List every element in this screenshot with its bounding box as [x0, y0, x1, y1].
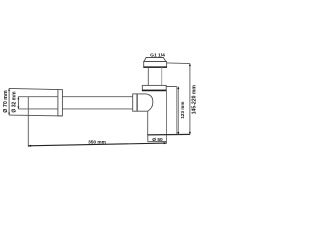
tailpiece trapezoid — [144, 58, 166, 62]
svg-text:Ø 70 mm: Ø 70 mm — [3, 90, 9, 113]
inlet pipe — [147, 67, 149, 85]
O70 dimension arrows — [8, 88, 10, 91]
trap head top line — [166, 86, 177, 88]
trap inner right edge / extension — [166, 90, 168, 143]
trap outer right edge — [176, 87, 178, 135]
123 dimension — [177, 87, 179, 135]
bottle left edge — [147, 111, 149, 135]
trap top nut — [142, 85, 166, 90]
bottle bottom — [147, 133, 190, 136]
tailpiece flange — [144, 62, 167, 68]
wall pipe (O32) — [18, 96, 132, 98]
svg-text:123 mm: 123 mm — [180, 102, 185, 119]
350 dimension — [27, 97, 29, 147]
O50 label box — [147, 135, 149, 142]
elbow nut — [132, 94, 134, 111]
tube end band — [58, 90, 63, 116]
145-220 dimension — [167, 62, 190, 65]
svg-text:145-220 mm: 145-220 mm — [192, 85, 198, 115]
elbow body — [132, 93, 146, 95]
svg-text:Ø 50: Ø 50 — [152, 137, 163, 143]
O32 dimension — [17, 97, 19, 109]
wall tube (O70) — [9, 88, 58, 89]
svg-text:350 mm: 350 mm — [88, 139, 106, 145]
svg-text:Ø 32 mm: Ø 32 mm — [12, 91, 18, 113]
